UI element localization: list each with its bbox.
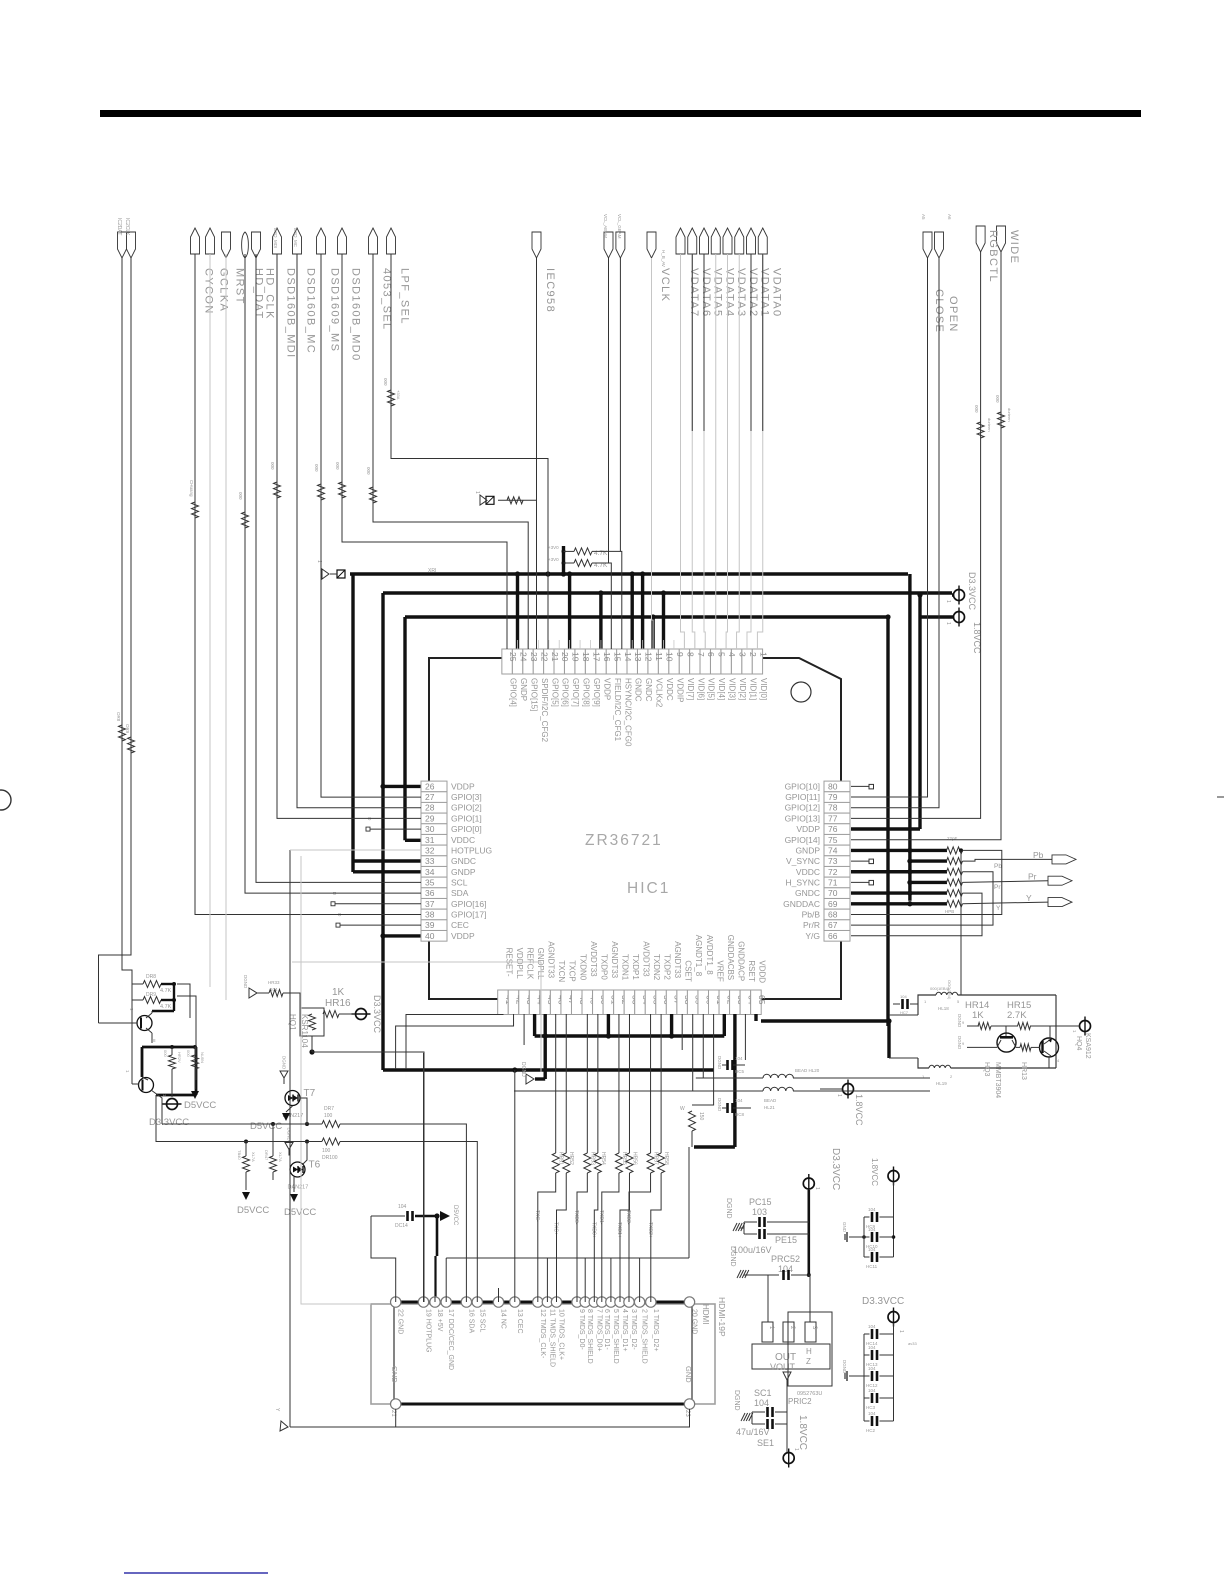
svg-text:DSD1609_MS: DSD1609_MS [329,268,341,352]
svg-text:VCL_GEAM: VCL_GEAM [617,214,622,239]
svg-text:CEC: CEC [451,920,469,930]
svg-text:1: 1 [758,652,768,657]
svg-text:32: 32 [425,845,435,855]
svg-text:HL21: HL21 [764,1105,775,1110]
svg-text:39: 39 [425,920,435,930]
svg-text:GNDC: GNDC [644,678,653,702]
svg-text:TXCP: TXCP [568,960,577,981]
svg-text:13 CEC: 13 CEC [516,1309,523,1334]
svg-text:000: 000 [163,1050,168,1057]
svg-text:GNDC: GNDC [634,678,643,702]
svg-text:35: 35 [425,877,435,887]
svg-text:18: 18 [581,652,591,662]
svg-text:6: 6 [706,652,716,657]
svg-text:GPIO[4]: GPIO[4] [509,678,518,707]
svg-text:HDMI: HDMI [701,1304,710,1324]
svg-text:Pb: Pb [994,863,1002,870]
svg-text:VDDC: VDDC [665,678,674,701]
svg-text:VDATA7: VDATA7 [688,268,700,318]
svg-text:GPIO[6]: GPIO[6] [561,678,570,707]
svg-text:VID[0]: VID[0] [759,678,768,700]
svg-text:VDATA5: VDATA5 [712,268,724,318]
svg-text:3: 3 [738,652,748,657]
svg-text:TXD2-: TXD2- [625,1210,631,1225]
svg-text:14: 14 [623,652,633,662]
svg-text:21: 21 [550,652,560,662]
svg-text:22 GND: 22 GND [397,1309,404,1334]
svg-text:HL18: HL18 [938,1006,949,1011]
svg-text:16 SDA: 16 SDA [467,1309,474,1333]
svg-text:104: 104 [754,1398,769,1408]
svg-text:104: 104 [868,1411,876,1416]
svg-text:DGND: DGND [842,1360,847,1374]
svg-text:+3V0: +3V0 [548,557,559,562]
svg-text:DSD160B_MC: DSD160B_MC [305,268,317,354]
svg-text:W: W [680,1106,685,1112]
svg-text:34: 34 [425,867,435,877]
svg-text:HR52: HR52 [568,1152,574,1165]
svg-text:HQ1: HQ1 [288,1014,297,1031]
svg-text:TXDN0: TXDN0 [578,954,587,981]
svg-text:20 GND: 20 GND [691,1309,698,1334]
svg-text:HR53: HR53 [589,1152,595,1165]
svg-text:9 TMDS_D0-: 9 TMDS_D0- [578,1309,585,1350]
svg-text:HL19: HL19 [936,1081,947,1086]
svg-text:A5: A5 [921,214,926,220]
svg-text:11: 11 [654,652,664,661]
svg-text:TXD2+: TXD2+ [647,1222,653,1238]
svg-text:VCLK: VCLK [659,268,671,302]
svg-text:ZR36721: ZR36721 [585,832,663,849]
svg-text:GPIO[12]: GPIO[12] [785,803,820,813]
svg-text:100: 100 [322,1148,331,1154]
svg-text:000: 000 [270,462,275,470]
svg-text:HIC1: HIC1 [627,880,670,897]
svg-text:IC2CLK: IC2CLK [124,218,130,236]
svg-text:VDATA1: VDATA1 [759,268,771,318]
svg-text:VDATA4: VDATA4 [723,268,735,318]
svg-text:FIELD/I2C_CFG1: FIELD/I2C_CFG1 [613,678,622,742]
svg-text:1: 1 [814,1187,820,1190]
svg-text:GND: GND [684,1366,693,1383]
svg-text:104: 104 [778,1264,793,1274]
svg-text:SC1: SC1 [754,1388,772,1398]
svg-text:GPIO[10]: GPIO[10] [785,781,820,791]
svg-text:000: 000 [314,464,319,472]
svg-text:HR33: HR33 [268,980,280,985]
svg-text:100: 100 [324,1113,333,1119]
svg-text:104: 104 [868,1345,876,1350]
svg-text:GPIO[7]: GPIO[7] [571,678,580,707]
svg-text:47u/16V: 47u/16V [736,1427,770,1437]
svg-text:29: 29 [425,813,435,823]
svg-text:TXD1-: TXD1- [598,1210,604,1225]
svg-text:D3.3VCC: D3.3VCC [967,572,977,611]
svg-text:GPIO[13]: GPIO[13] [785,813,820,823]
svg-text:GNDDACBS: GNDDACBS [726,935,735,980]
svg-text:GPIO[1]: GPIO[1] [451,813,482,823]
svg-text:LPF_SEL: LPF_SEL [399,268,411,325]
svg-text:7 TMDS_D0+: 7 TMDS_D0+ [595,1309,602,1351]
svg-text:T6: T6 [309,1160,321,1171]
svg-text:VDATA2: VDATA2 [747,268,759,318]
svg-text:AVDDT33: AVDDT33 [642,941,651,977]
svg-text:27: 27 [425,792,435,802]
svg-text:GPIO[0]: GPIO[0] [451,824,482,834]
svg-text:DR8: DR8 [146,974,156,980]
svg-text:DGND: DGND [243,975,248,989]
svg-text:2 TMDS_SHIELD: 2 TMDS_SHIELD [641,1309,648,1364]
svg-text:GCLKA: GCLKA [218,268,230,312]
svg-text:24: 24 [518,652,528,662]
svg-text:Pr/R: Pr/R [803,920,820,930]
svg-text:1: 1 [474,491,480,494]
svg-text:RSET: RSET [747,960,756,981]
svg-text:12 TMDS_CLK-: 12 TMDS_CLK- [539,1309,546,1359]
svg-text:DR100: DR100 [322,1155,338,1161]
svg-text:GPIO[3]: GPIO[3] [451,792,482,802]
svg-text:7: 7 [696,652,706,657]
svg-text:VDDC: VDDC [451,835,475,845]
svg-text:V_SYNC: V_SYNC [786,856,820,866]
svg-text:000: 000 [366,467,371,475]
svg-text:TXDN1: TXDN1 [620,954,629,981]
svg-text:5 TMDS_SHIELD: 5 TMDS_SHIELD [612,1309,619,1364]
svg-text:104: 104 [868,1227,876,1232]
svg-text:IC2DAT: IC2DAT [116,218,122,235]
svg-text:AVDDT1_8: AVDDT1_8 [705,935,714,975]
svg-text:CSET: CSET [684,960,693,981]
svg-text:HR58: HR58 [663,1152,669,1165]
svg-text:77: 77 [828,813,838,823]
svg-text:+3V0: +3V0 [548,545,559,550]
svg-text:Y: Y [1026,893,1032,903]
svg-text:38: 38 [425,909,435,919]
svg-text:VDDPLL: VDDPLL [515,948,524,980]
svg-text:GPIO[17]: GPIO[17] [451,909,486,919]
svg-text:75: 75 [828,835,838,845]
svg-text:SPDIF/I2C_CFG2: SPDIF/I2C_CFG2 [540,678,549,743]
svg-text:104: 104 [900,994,907,999]
svg-text:VID[3]: VID[3] [728,678,737,700]
svg-text:VDDD: VDDD [757,960,766,983]
svg-text:4.7K: 4.7K [160,1004,172,1010]
svg-text:DGND: DGND [957,1014,962,1028]
svg-text:VDDP: VDDP [451,781,475,791]
svg-text:104: 104 [868,1247,876,1252]
svg-text:67: 67 [828,920,838,930]
svg-text:TXC-: TXC- [534,1210,540,1222]
svg-text:VCL_AEAM: VCL_AEAM [603,214,608,238]
svg-text:GND: GND [842,1222,847,1233]
svg-text:BEAD: BEAD [764,1098,777,1103]
svg-text:durteen: durteen [1007,408,1012,422]
svg-text:VID[5]: VID[5] [707,678,716,700]
svg-text:TXDP2: TXDP2 [663,954,672,980]
svg-text:OR9: OR9 [125,724,130,734]
svg-text:VDATA6: VDATA6 [700,268,712,318]
svg-text:78: 78 [828,803,838,813]
svg-text:VDDP: VDDP [796,824,820,834]
svg-text:104: 104 [735,1098,743,1103]
svg-text:25: 25 [508,652,518,662]
svg-text:76: 76 [828,824,838,834]
svg-text:GNDC: GNDC [451,856,476,866]
svg-text:73: 73 [828,856,838,866]
svg-text:GNDP: GNDP [519,678,528,701]
svg-text:000: 000 [995,395,1000,403]
svg-text:D3.3VCC: D3.3VCC [862,1296,904,1307]
svg-text:CHuang: CHuang [189,480,194,497]
svg-text:79: 79 [828,792,838,802]
svg-text:GPIO[8]: GPIO[8] [582,678,591,707]
svg-text:DR7: DR7 [324,1106,334,1112]
svg-text:DGND: DGND [725,1198,732,1219]
svg-text:+33A: +33A [396,390,401,400]
svg-text:1.8VCC: 1.8VCC [854,1094,864,1126]
svg-text:14 NC: 14 NC [500,1309,507,1329]
svg-text:HD_DAT: HD_DAT [253,268,265,320]
svg-text:D3.3VCC: D3.3VCC [149,1117,189,1128]
svg-text:Z: Z [806,1357,811,1366]
svg-text:Pb/B: Pb/B [802,909,821,919]
svg-text:4: 4 [727,652,737,657]
svg-text:BEAD HL20: BEAD HL20 [795,1068,820,1073]
svg-text:H_SYNC: H_SYNC [786,877,820,887]
svg-text:71: 71 [828,877,838,887]
svg-text:HD_CLK: HD_CLK [264,268,276,320]
svg-text:33: 33 [425,856,435,866]
svg-text:D3.3VCC: D3.3VCC [372,995,382,1034]
svg-text:66: 66 [828,931,838,941]
svg-text:av33: av33 [908,1341,917,1346]
svg-text:6 TMDS_D1-: 6 TMDS_D1- [603,1309,610,1350]
svg-text:GNDDACP: GNDDACP [736,941,745,981]
svg-text:HR51: HR51 [558,1152,564,1165]
svg-text:30: 30 [425,824,435,834]
svg-text:70: 70 [828,888,838,898]
svg-text:DSD_MDI: DSD_MDI [273,228,278,248]
svg-text:HPB: HPB [945,909,954,914]
svg-text:VDDIP: VDDIP [675,678,684,702]
svg-text:HR2V: HR2V [177,1052,182,1063]
svg-text:1K: 1K [972,1010,984,1021]
svg-text:10: 10 [665,652,675,662]
svg-text:104: 104 [398,1204,407,1210]
svg-text:40: 40 [425,931,435,941]
svg-text:H: H [806,1347,812,1356]
svg-text:20: 20 [560,652,570,662]
svg-text:SCL: SCL [451,877,468,887]
svg-text:AGNDT33: AGNDT33 [610,941,619,978]
svg-text:XL7A: XL7A [278,1152,283,1162]
svg-text:19 HOTPLUG: 19 HOTPLUG [425,1309,432,1353]
svg-text:Pb: Pb [1033,850,1044,860]
svg-text:DGND: DGND [957,1036,962,1050]
svg-text:80: 80 [828,781,838,791]
svg-text:9: 9 [675,652,685,657]
svg-text:11 TMDS_SHIELD: 11 TMDS_SHIELD [548,1309,555,1367]
svg-text:Y: Y [996,905,1001,912]
svg-text:VDATA3: VDATA3 [735,268,747,318]
svg-text:SDA: SDA [451,888,469,898]
svg-text:PE15: PE15 [775,1235,797,1245]
svg-text:D5VCC: D5VCC [237,1205,269,1216]
svg-text:VOUT: VOUT [770,1362,796,1372]
svg-text:TXD0-: TXD0- [573,1210,579,1225]
svg-text:OOO(3R4): OOO(3R4) [947,980,952,1000]
svg-text:2.7K: 2.7K [1007,1010,1027,1021]
svg-text:DGND: DGND [287,1128,292,1142]
svg-text:VDDP: VDDP [451,931,475,941]
svg-text:VID[4]: VID[4] [717,678,726,700]
svg-text:1.8VCC: 1.8VCC [870,1158,879,1186]
svg-text:1: 1 [945,622,951,625]
svg-text:000: 000 [186,1050,191,1057]
svg-text:HC3: HC3 [866,1405,875,1410]
svg-text:NU5N: NU5N [200,1052,205,1063]
svg-text:VDATA0: VDATA0 [770,268,782,318]
svg-text:37: 37 [425,899,435,909]
svg-text:DAN217: DAN217 [288,1185,309,1191]
svg-text:8: 8 [685,652,695,657]
svg-text:AGNDT33: AGNDT33 [547,941,556,978]
svg-text:VDDP: VDDP [602,678,611,700]
svg-text:000: 000 [974,405,979,413]
svg-text:HDMI-19P: HDMI-19P [717,1297,727,1337]
svg-text:WIDE: WIDE [1008,230,1020,264]
svg-text:HOTPLUG: HOTPLUG [451,845,492,855]
svg-text:DGND: DGND [282,1056,287,1070]
svg-text:HQ3: HQ3 [983,1062,990,1077]
svg-text:durteen: durteen [987,418,992,432]
svg-text:SE1: SE1 [757,1438,774,1448]
svg-text:IEC958: IEC958 [544,268,556,313]
svg-text:GPIO[15]: GPIO[15] [529,678,538,711]
svg-text:HR54: HR54 [600,1152,606,1165]
svg-text:D5VCC: D5VCC [250,1121,282,1132]
svg-text:1K: 1K [332,987,345,998]
svg-text:22pF: 22pF [947,836,958,841]
svg-text:MRST: MRST [234,268,246,305]
svg-text:D3.3VCC: D3.3VCC [830,1148,841,1190]
svg-text:17 DDC/CEC_GND: 17 DDC/CEC_GND [447,1309,454,1370]
svg-text:TXDN2: TXDN2 [652,954,661,981]
svg-text:21: 21 [390,1410,396,1417]
svg-text:OPEN: OPEN [947,296,959,333]
svg-text:PRC52: PRC52 [771,1254,800,1264]
svg-text:000(1EB4): 000(1EB4) [930,986,950,991]
svg-text:KSA912: KSA912 [1084,1033,1091,1059]
svg-text:OR8: OR8 [116,712,121,722]
svg-text:A6: A6 [947,214,952,220]
svg-text:AGNDT33: AGNDT33 [673,941,682,978]
svg-text:GPIO[9]: GPIO[9] [592,678,601,707]
svg-text:GPIO[16]: GPIO[16] [451,899,486,909]
svg-text:4 TMDS_D1+: 4 TMDS_D1+ [621,1309,628,1351]
svg-text:VID[7]: VID[7] [686,678,695,700]
svg-text:REFCLK: REFCLK [526,948,535,980]
svg-text:GNDC: GNDC [795,888,820,898]
svg-text:23: 23 [529,652,539,662]
svg-text:74: 74 [828,845,838,855]
svg-text:HSYNC/I2C_CFG0: HSYNC/I2C_CFG0 [623,678,632,747]
svg-text:TXDP0: TXDP0 [599,954,608,980]
svg-text:DSD_MC: DSD_MC [293,228,298,248]
svg-text:GND: GND [390,1366,399,1383]
svg-text:000: 000 [335,462,340,470]
svg-text:GPIO[11]: GPIO[11] [785,792,820,802]
svg-text:GNDP: GNDP [451,867,476,877]
svg-text:104: 104 [868,1388,876,1393]
svg-text:10 TMDS_CLK+: 10 TMDS_CLK+ [558,1309,565,1360]
svg-text:VID[1]: VID[1] [748,678,757,700]
svg-text:DGND: DGND [729,1246,736,1267]
svg-text:5: 5 [717,652,727,657]
svg-text:22: 22 [539,652,549,662]
svg-text:VREF: VREF [715,960,724,981]
svg-text:H_B_AV: H_B_AV [661,250,666,267]
svg-text:15: 15 [612,652,622,662]
svg-text:TXC+: TXC+ [553,1222,559,1235]
svg-text:HR56: HR56 [631,1152,637,1165]
svg-text:100u/16V: 100u/16V [733,1245,772,1255]
svg-text:VID[6]: VID[6] [696,678,705,700]
svg-text:31: 31 [425,835,435,845]
svg-text:RGBCTL: RGBCTL [987,230,999,283]
svg-text:104: 104 [868,1207,876,1212]
svg-text:DR47: DR47 [264,1150,269,1161]
svg-text:GPIO[2]: GPIO[2] [451,803,482,813]
svg-text:HR57: HR57 [653,1152,659,1165]
svg-text:69: 69 [828,899,838,909]
svg-text:Pr: Pr [994,884,1001,891]
svg-text:GNDP: GNDP [795,845,820,855]
svg-text:GPIO[14]: GPIO[14] [785,835,820,845]
svg-text:VID[2]: VID[2] [738,678,747,700]
svg-text:DSD160B_MDI: DSD160B_MDI [285,268,297,359]
svg-text:65: 65 [757,995,767,1005]
svg-text:T7: T7 [304,1088,316,1099]
svg-text:104: 104 [868,1366,876,1371]
svg-text:DGND: DGND [717,1098,722,1112]
svg-text:CYCON: CYCON [203,268,215,315]
svg-text:XRI: XRI [428,568,436,574]
svg-text:PRIC2: PRIC2 [788,1397,812,1406]
svg-text:36: 36 [425,888,435,898]
svg-text:GPIO[5]: GPIO[5] [550,678,559,707]
svg-text:104: 104 [735,1056,743,1061]
svg-text:000: 000 [383,378,388,386]
svg-text:TB40: TB40 [237,1150,242,1160]
svg-text:HR16: HR16 [325,998,351,1009]
svg-text:Pr: Pr [1028,871,1037,881]
svg-text:TXD0+: TXD0+ [590,1222,596,1238]
svg-text:2: 2 [748,652,758,657]
svg-text:HR13: HR13 [1020,1062,1027,1080]
svg-text:1: 1 [945,600,951,603]
svg-text:15 SCL: 15 SCL [478,1309,485,1332]
svg-text:VCLKx2: VCLKx2 [655,678,664,708]
svg-text:HC7: HC7 [900,1010,909,1015]
svg-text:000: 000 [238,492,243,500]
svg-text:PC15: PC15 [749,1197,772,1207]
svg-text:HR55: HR55 [621,1152,627,1165]
svg-text:12: 12 [644,652,654,662]
svg-text:3 TMDS_D2-: 3 TMDS_D2- [630,1309,637,1350]
svg-text:Y/G: Y/G [805,931,820,941]
svg-text:HC5: HC5 [735,1069,744,1074]
